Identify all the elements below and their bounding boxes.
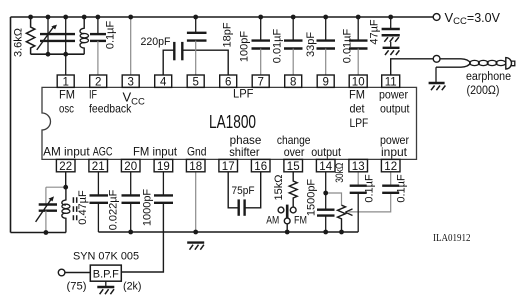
label pin17 phase shifter [229,133,262,159]
svg-text:21: 21 [92,161,105,173]
wire pin3 VCC [130,17,132,75]
label SYN 07K 005 [73,250,139,262]
wire 1000pF to BPF [121,203,163,272]
wire AM bottom [11,232,66,234]
capacitor 1500pF pin14 [306,172,335,232]
svg-text:33pF: 33pF [305,32,317,57]
svg-text:18: 18 [189,161,202,173]
label pin15 change over [277,133,311,159]
svg-text:ILA01912: ILA01912 [433,232,471,244]
junction dots top rail [28,15,393,20]
svg-text:power: power [379,87,408,101]
svg-text:input: input [381,145,408,159]
capacitor 220pF pins4-6 [141,36,229,75]
svg-text:earphone: earphone [466,71,511,83]
label (2k) [123,281,142,293]
label pin18 Gnd [187,144,207,158]
capacitor 0.1uF pin12 [382,172,407,203]
svg-text:LA1800: LA1800 [209,112,256,132]
label pin12 power input [380,133,409,159]
label pin21 AGC [93,144,113,158]
variable capacitor CV1 FM tuning [37,17,75,75]
svg-text:18pF: 18pF [222,22,234,47]
svg-text:0.1µF: 0.1µF [105,21,117,50]
svg-text:19: 19 [157,161,170,173]
svg-text:(2k): (2k) [123,281,142,293]
svg-text:1000pF: 1000pF [142,189,154,227]
junction dot pin14 30k branch [323,191,328,196]
svg-text:AGC: AGC [93,144,113,158]
junction dot AM varcap bottom [44,230,49,235]
svg-text:3: 3 [127,76,133,88]
junction dots FM tank bottom [46,52,69,57]
svg-text:4: 4 [160,76,167,88]
svg-text:B.P.F: B.P.F [93,268,119,280]
wire pin22 [65,172,67,187]
inductor L2 AM bar antenna coil [62,187,77,232]
svg-text:Gnd: Gnd [187,144,207,158]
ground under 47uF [383,48,400,55]
label pin2 IF feedback [89,87,132,115]
svg-text:47µF: 47µF [369,19,381,45]
label pin20 FM input [133,144,178,158]
capacitor 0.01uF pin10 [342,17,368,75]
capacitor 33pF pin9 [305,17,335,75]
junction dot AM tank top [63,185,68,190]
resistor 3.6kOhm [13,17,35,57]
earphone E1 [436,58,515,97]
label (75) [67,281,87,293]
svg-text:100pF: 100pF [239,31,251,62]
svg-text:(200Ω): (200Ω) [467,85,500,97]
svg-text:output: output [380,101,410,115]
svg-text:8: 8 [290,76,296,88]
svg-text:20: 20 [124,161,137,173]
svg-text:0.01µF: 0.01µF [272,28,284,63]
svg-text:15kΩ: 15kΩ [273,175,285,201]
svg-text:75pF: 75pF [232,185,255,197]
wire AM tank top [46,186,66,188]
svg-text:0.47µF: 0.47µF [77,190,89,225]
svg-text:FM input: FM input [133,144,178,158]
svg-text:FM: FM [349,87,365,101]
svg-text:15: 15 [287,161,300,173]
ground pin18 [187,243,204,250]
wire terminal to BPF [65,272,90,274]
svg-text:6: 6 [225,76,231,88]
capacitor 0.1uF pin2 [90,17,117,75]
svg-text:osc: osc [59,101,74,115]
resistor 30kOhm variable [326,163,346,232]
svg-text:(75): (75) [67,281,87,293]
svg-text:VCC=3.0V: VCC=3.0V [445,10,501,27]
svg-text:0.1µF: 0.1µF [396,174,408,203]
pin boxes top row 1-11 [57,75,74,88]
label ILA01912 [433,232,471,244]
capacitor 18pF pin5 [187,17,234,75]
capacitor 0.47uF pin21 [77,172,108,232]
capacitor 47uF electrolytic [369,17,400,47]
svg-text:22: 22 [59,161,72,173]
label pin14 output [311,145,341,159]
label pin22 AM input [43,144,90,158]
svg-text:220pF: 220pF [141,36,171,48]
svg-text:17: 17 [222,161,235,173]
capacitor 0.022uF pin20 [108,172,141,232]
inductor L1 FM osc coil [80,17,89,54]
node earphone terminal [433,55,440,62]
ground BPF [97,281,114,294]
ground earphone [429,67,446,90]
filter block BPF [90,265,121,281]
pin boxes bottom row 22-12 [56,159,75,172]
svg-text:9: 9 [322,76,328,88]
svg-text:det: det [350,101,366,115]
wire pin11 to earphone [391,59,433,75]
variable capacitor CV2 AM tuning [36,187,57,232]
svg-text:0.022µF: 0.022µF [108,189,120,230]
svg-text:output: output [311,145,341,159]
svg-text:13: 13 [352,161,365,173]
svg-text:7: 7 [257,76,263,88]
svg-text:AM: AM [266,215,279,227]
node BPF input terminal [58,269,65,276]
svg-text:1500pF: 1500pF [306,179,318,217]
wire FM tank bottom [31,53,85,55]
label pin3 VCC [123,90,146,108]
wire left rail [10,17,12,233]
capacitor 1000pF pin19 [142,172,174,226]
svg-text:5: 5 [192,76,198,88]
svg-text:AM input: AM input [43,144,90,158]
svg-text:shifter: shifter [229,145,259,159]
svg-text:30kΩ: 30kΩ [334,163,346,183]
capacitor 0.1uF pin13 [350,172,376,232]
svg-text:FM: FM [59,87,75,101]
label pin1 FM osc [59,87,75,115]
switch SW1 change over AM/FM [266,205,307,232]
resistor 15kOhm pin15 [273,172,297,207]
svg-text:0.01µF: 0.01µF [342,28,354,63]
svg-text:LPF: LPF [350,116,369,130]
capacitor 100pF pin7 [239,17,271,75]
label pin10 FM det LPF [349,87,368,130]
IC U1 LA1800 body [42,87,417,159]
capacitor 0.01uF pin8 [272,17,303,75]
svg-text:14: 14 [319,161,332,173]
capacitor 75pF pins17-16 [228,172,261,216]
svg-text:over: over [284,145,305,159]
svg-text:IF: IF [89,87,97,101]
wire pin18 Gnd [195,172,197,232]
node VCC terminal [433,10,500,27]
label pin6 LPF [233,87,254,101]
wire ground rail bottom [98,231,358,233]
wire top VCC rail [11,16,434,18]
svg-text:12: 12 [384,161,397,173]
svg-text:3.6kΩ: 3.6kΩ [13,28,25,57]
label pin11 power output [379,87,410,115]
junction dots ground rail [128,230,344,235]
label U1 LA1800 [209,112,256,132]
svg-text:0.1µF: 0.1µF [364,174,376,203]
wire wiper arrow from pin12 cap [345,193,390,216]
svg-text:LPF: LPF [233,87,254,101]
svg-text:16: 16 [254,161,267,173]
svg-text:SYN 07K 005: SYN 07K 005 [73,250,139,262]
